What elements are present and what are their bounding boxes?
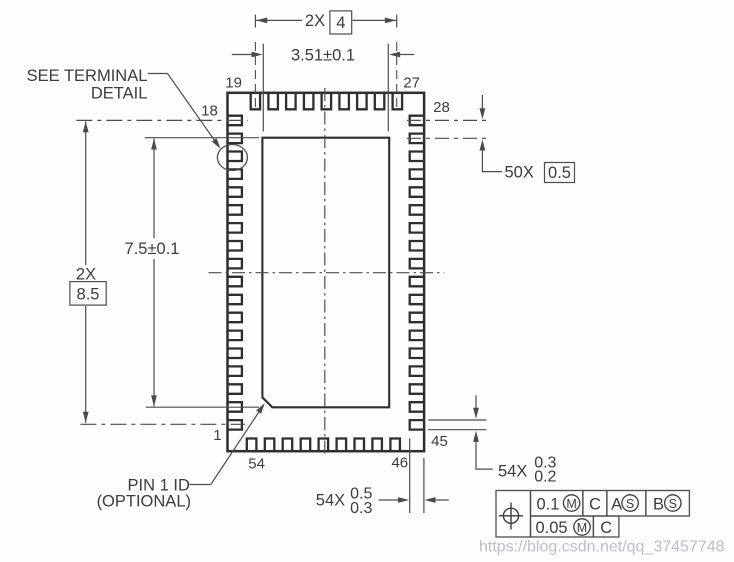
svg-text:2X: 2X xyxy=(76,266,96,284)
package body outline xyxy=(228,93,425,451)
dimension 7.5±0.1: bottom extension line xyxy=(146,406,259,408)
svg-text:28: 28 xyxy=(433,99,450,116)
terminal pin 26 (top) xyxy=(375,94,385,110)
svg-text:18: 18 xyxy=(201,103,218,120)
terminal pin 51 (bottom) xyxy=(301,439,311,451)
terminal pin 32 (right) xyxy=(410,187,423,197)
dimension 50X 0.5: boxed basic dim "0.5" xyxy=(545,163,575,183)
dimension 54X 0.3/0.2: lower arrow pointing up and leader xyxy=(476,441,493,469)
svg-text:0.5: 0.5 xyxy=(548,164,571,182)
dimension 2X 4: boxed basic dim "4" xyxy=(330,11,352,34)
terminal pin 54 (bottom) xyxy=(247,439,257,451)
terminal pin 37 (right) xyxy=(410,277,423,287)
terminal pin 4 (left) xyxy=(229,366,242,376)
svg-text:19: 19 xyxy=(225,75,242,92)
terminal pin 40 (right) xyxy=(410,331,423,341)
svg-text:27: 27 xyxy=(403,75,420,92)
svg-text:8.5: 8.5 xyxy=(77,285,100,303)
dimension 3.51±0.1: solid extension lines from pad edges xyxy=(262,44,264,132)
terminal pin 20 (top) xyxy=(268,94,278,110)
svg-text:54X: 54X xyxy=(498,462,527,480)
svg-text:50X: 50X xyxy=(505,163,534,181)
terminal pin 45 (right) xyxy=(410,420,423,430)
svg-text:(OPTIONAL): (OPTIONAL) xyxy=(97,493,191,511)
terminal pin 52 (bottom) xyxy=(283,439,293,451)
terminal pin 28 (right) xyxy=(410,116,423,126)
terminal pin 43 (right) xyxy=(410,384,423,394)
terminal pin 34 (right) xyxy=(410,223,423,233)
terminal pin 11 (left) xyxy=(229,241,242,251)
terminal pin 31 (right) xyxy=(410,169,423,179)
svg-text:S: S xyxy=(669,497,677,511)
terminal pin 29 (right) xyxy=(410,134,423,144)
terminal pin 46 (bottom) xyxy=(390,439,400,451)
svg-text:7.5±0.1: 7.5±0.1 xyxy=(125,240,180,258)
pin 28 centerline (dash-dot) xyxy=(407,119,489,121)
terminal pin 41 (right) xyxy=(410,349,423,359)
terminal pin 10 (left) xyxy=(229,259,242,269)
pin 1 centerline (dash-dot) xyxy=(80,423,245,425)
dimension 3.51±0.1: right arrow xyxy=(399,54,415,56)
svg-text:B: B xyxy=(653,496,664,514)
terminal pin 21 (top) xyxy=(286,94,296,110)
terminal pin 8 (left) xyxy=(229,295,242,304)
svg-text:54X: 54X xyxy=(316,492,345,510)
terminal pin 2 (left) xyxy=(229,402,242,412)
svg-text:https://blog.csdn.net/qq_37457: https://blog.csdn.net/qq_37457748 xyxy=(479,539,725,556)
terminal pin 23 (top) xyxy=(322,94,332,110)
terminal pin 18 (left) xyxy=(229,116,242,126)
terminal pin 9 (left) xyxy=(229,277,242,287)
terminal pin 48 (bottom) xyxy=(355,439,365,451)
svg-text:M: M xyxy=(566,497,576,511)
terminal pin 19 (top) xyxy=(251,94,260,110)
terminal pin 1 (left) xyxy=(229,420,242,430)
dimension 2X 8.5: dimension line with arrows xyxy=(85,121,87,265)
dimension 2X 4: dashed extension lines down to pins 19 and 27 xyxy=(254,42,256,111)
svg-text:C: C xyxy=(600,519,612,537)
vertical centerline xyxy=(324,88,326,456)
feature control frame: position symbol cell xyxy=(496,491,531,538)
terminal pin 5 (left) xyxy=(229,349,242,359)
terminal pin 13 (left) xyxy=(229,205,242,215)
svg-text:DETAIL: DETAIL xyxy=(91,85,148,103)
dimension 2X 4: dimension line with outward arrowheads xyxy=(255,19,302,21)
svg-text:0.2: 0.2 xyxy=(534,469,556,486)
pin 29 centerline (dash-dot) xyxy=(407,137,489,139)
svg-text:45: 45 xyxy=(431,433,448,450)
dimension 2X 8.5: boxed basic dim "8.5" xyxy=(70,282,106,306)
terminal pin 42 (right) xyxy=(410,366,423,376)
terminal detail circle around pin 16 xyxy=(217,145,247,171)
terminal pin 53 (bottom) xyxy=(265,439,275,451)
terminal pin 16 (left) xyxy=(229,152,242,162)
leader line from SEE TERMINAL DETAIL to terminal circle xyxy=(148,73,168,75)
terminal pin 49 (bottom) xyxy=(337,439,347,451)
terminal pin 30 (right) xyxy=(410,152,423,162)
dimension 3.51±0.1: left arrow xyxy=(232,54,253,56)
leader line from PIN 1 ID to chamfer xyxy=(190,484,211,486)
FCF row 1 cells: 0.1(M) | C | A(S) | B(S) xyxy=(531,491,583,517)
terminal pin 36 (right) xyxy=(410,259,423,269)
terminal pin 22 (top) xyxy=(304,94,314,110)
dimension 7.5±0.1: dimension line with arrows xyxy=(153,139,155,239)
terminal pin 50 (bottom) xyxy=(319,439,329,451)
FCF row 2 cells: 0.05(M) | C xyxy=(531,516,594,537)
dimension 50X 0.5: upper arrow pointing down xyxy=(481,95,483,110)
svg-text:46: 46 xyxy=(391,454,408,471)
svg-text:A: A xyxy=(611,496,622,514)
svg-text:4: 4 xyxy=(336,14,345,32)
terminal pin 7 (left) xyxy=(229,313,242,323)
svg-text:M: M xyxy=(577,521,587,535)
svg-text:2X: 2X xyxy=(305,12,325,30)
svg-text:54: 54 xyxy=(248,456,265,473)
terminal pin 15 (left) xyxy=(229,169,242,179)
dimension 54X 0.5/0.3: extension lines below pin 45 / body edge xyxy=(409,438,411,513)
svg-text:S: S xyxy=(626,497,634,511)
dimension 54X 0.5/0.3: left arrow pointing right xyxy=(379,499,400,501)
terminal pin 12 (left) xyxy=(229,223,242,233)
terminal pin 25 (top) xyxy=(357,94,367,110)
terminal pin 39 (right) xyxy=(410,313,423,323)
terminal pin 6 (left) xyxy=(229,331,242,341)
terminal pin 17 (left) xyxy=(229,134,242,144)
pin 18 centerline (dash-dot) xyxy=(76,119,248,121)
terminal pin 35 (right) xyxy=(410,241,423,251)
dimension 2X 4: extension hooks xyxy=(254,15,256,28)
svg-text:3.51±0.1: 3.51±0.1 xyxy=(291,47,355,65)
exposed pad / thermal pad outline with pin-1 chamfer xyxy=(262,138,389,408)
dimension 54X 0.3/0.2: extension lines from pin 45 edges xyxy=(428,419,486,421)
terminal pin 44 (right) xyxy=(410,402,423,412)
dimension 54X 0.3/0.2: upper arrow pointing down xyxy=(475,395,477,410)
svg-text:C: C xyxy=(589,496,601,514)
position tolerance symbol (circle with cross) xyxy=(503,508,518,523)
terminal pin 14 (left) xyxy=(229,187,242,197)
svg-text:0.3: 0.3 xyxy=(350,500,372,517)
dimension 50X 0.5: lower arrow pointing up and leader xyxy=(482,149,502,172)
terminal pin 33 (right) xyxy=(410,205,423,215)
dimension 7.5±0.1: top extension line xyxy=(145,137,259,139)
dimension 54X 0.5/0.3: right arrow pointing left xyxy=(434,499,449,501)
terminal pin 47 (bottom) xyxy=(372,439,382,451)
terminal pin 24 (top) xyxy=(339,94,349,110)
svg-text:1: 1 xyxy=(213,427,221,444)
horizontal centerline xyxy=(209,272,445,274)
terminal pin 3 (left) xyxy=(229,384,242,394)
svg-text:SEE TERMINAL: SEE TERMINAL xyxy=(27,67,148,85)
svg-text:0.05: 0.05 xyxy=(536,519,568,537)
terminal pin 38 (right) xyxy=(410,295,423,304)
svg-text:0.1: 0.1 xyxy=(537,496,560,514)
terminal pin 27 (top) xyxy=(393,94,403,110)
